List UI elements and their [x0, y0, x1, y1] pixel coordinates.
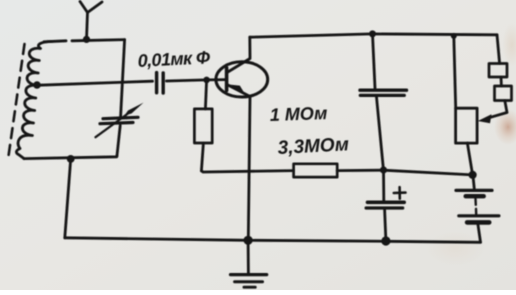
svg-text:3,3МОм: 3,3МОм: [277, 134, 349, 159]
svg-text:1 МОм: 1 МОм: [269, 103, 327, 125]
svg-text:0,01мк Ф: 0,01мк Ф: [137, 47, 210, 71]
